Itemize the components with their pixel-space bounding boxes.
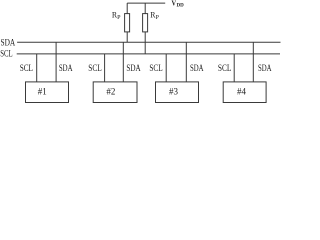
svg-text:V: V <box>172 0 177 8</box>
device 3 box <box>156 82 199 103</box>
device 1 SCL wire <box>36 54 38 82</box>
RP2 value label <box>150 11 159 21</box>
svg-text:#1: #1 <box>38 87 47 97</box>
device 3 SCL wire <box>165 54 167 82</box>
svg-text:SDA: SDA <box>126 64 140 74</box>
svg-text:SCL: SCL <box>218 64 232 74</box>
svg-text:SDA: SDA <box>59 64 73 74</box>
svg-text:SDA: SDA <box>258 64 272 74</box>
svg-text:SCL: SCL <box>20 64 33 74</box>
svg-text:#2: #2 <box>106 87 115 97</box>
device 4 SCL wire <box>233 54 235 82</box>
device 4 box <box>223 82 266 103</box>
svg-text:SDA: SDA <box>1 39 16 49</box>
RP1 value label <box>112 11 121 21</box>
svg-text:P: P <box>156 15 160 21</box>
svg-text:DD: DD <box>177 3 184 9</box>
device 1 SDA wire <box>55 42 57 82</box>
svg-text:SCL: SCL <box>0 50 13 60</box>
VDD label <box>172 0 184 9</box>
svg-text:SDA: SDA <box>190 64 204 74</box>
device 3 SDA wire <box>185 42 187 82</box>
svg-text:#3: #3 <box>169 87 179 97</box>
SCL bus wire <box>17 53 280 55</box>
svg-text:P: P <box>117 15 121 21</box>
svg-text:#4: #4 <box>237 87 247 97</box>
svg-text:SCL: SCL <box>149 64 162 74</box>
device 2 SDA wire <box>122 42 124 82</box>
svg-text:SCL: SCL <box>88 64 102 74</box>
device 2 box <box>93 82 137 103</box>
resistor RP1 <box>125 3 130 42</box>
SDA bus wire <box>17 41 280 43</box>
resistor RP2 <box>143 3 148 54</box>
device 1 box <box>26 82 69 103</box>
VDD rail wire <box>127 2 165 4</box>
device 2 SCL wire <box>104 54 106 82</box>
device 4 SDA wire <box>252 42 254 82</box>
